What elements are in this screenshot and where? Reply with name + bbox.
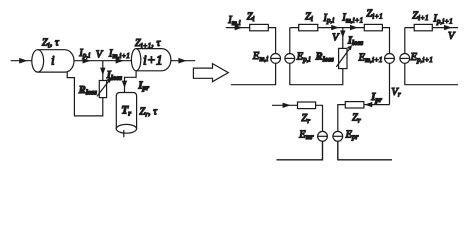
arrowhead I_loss (circuit) bbox=[340, 30, 345, 38]
variable resistor R_loss (circuit) bbox=[336, 45, 352, 68]
svg-text:Vr: Vr bbox=[391, 87, 400, 99]
svg-text:Ipr: Ipr bbox=[370, 92, 382, 104]
wire loop D bottom bbox=[405, 63, 458, 84]
source E_p,i bbox=[285, 54, 295, 64]
arrowhead I_p,i+1 bbox=[444, 25, 452, 30]
svg-text:Im,i+1: Im,i+1 bbox=[108, 48, 130, 60]
source E_pr bbox=[333, 131, 343, 141]
svg-text:Zr, τ: Zr, τ bbox=[139, 107, 158, 119]
svg-text:Iloss: Iloss bbox=[347, 35, 363, 47]
wire inlet to pipe i bbox=[11, 60, 33, 62]
svg-text:Rloss: Rloss bbox=[315, 52, 334, 64]
arrowhead I_p,i bbox=[83, 58, 91, 64]
wire loop A bottom bbox=[231, 63, 276, 84]
resonator tube T_r bbox=[116, 93, 136, 138]
svg-text:Rloss: Rloss bbox=[78, 85, 97, 97]
wire loop A top (I_m,i in) bbox=[226, 27, 250, 29]
svg-text:Emr: Emr bbox=[298, 129, 314, 141]
svg-text:Zi+1: Zi+1 bbox=[412, 10, 428, 22]
variable resistor R_loss (left) bbox=[97, 78, 111, 98]
wire loop B left vertical bbox=[289, 28, 291, 54]
arrowhead I_m,i+1 (circuit) bbox=[350, 25, 358, 30]
arrowhead I_m,i+1 bbox=[116, 58, 124, 64]
svg-text:Zi, τ: Zi, τ bbox=[42, 38, 60, 50]
svg-text:i: i bbox=[51, 52, 55, 67]
svg-text:Zr: Zr bbox=[352, 113, 361, 125]
svg-text:Ep,i: Ep,i bbox=[296, 52, 311, 64]
svg-text:i+1: i+1 bbox=[143, 52, 163, 67]
svg-text:V: V bbox=[96, 49, 104, 60]
svg-text:Zr: Zr bbox=[301, 113, 310, 125]
wire loop B bottom bbox=[290, 63, 343, 84]
resistor Z_i (loop B) bbox=[299, 24, 318, 30]
pipe segment i+1 bbox=[131, 49, 171, 71]
wire R_loss bottom loop back to pipe i bbox=[67, 72, 103, 116]
pipe segment i bbox=[32, 50, 74, 72]
wire pipe i to pipe i+1 bbox=[74, 60, 131, 62]
arrowhead I_pr (left) bbox=[122, 81, 127, 88]
resistor Z_r (loop F) bbox=[345, 102, 364, 108]
svg-text:Zi: Zi bbox=[305, 11, 313, 23]
svg-text:Ip,i+1: Ip,i+1 bbox=[432, 14, 452, 26]
resistor Z_i+1 (loop C) bbox=[364, 24, 382, 30]
wire loop E top (E_mr feed) bbox=[272, 104, 298, 106]
resistor Z_i+1 (loop D) bbox=[414, 24, 432, 30]
arrowhead outlet flow bbox=[178, 58, 186, 64]
wire loop C right + down bbox=[382, 28, 389, 54]
resistor Z_i (loop A) bbox=[250, 24, 269, 30]
svg-text:Im,i+1: Im,i+1 bbox=[341, 13, 363, 25]
wire loop E right + down bbox=[316, 105, 323, 131]
arrowhead I_m,i bbox=[235, 25, 243, 30]
wire branch junction to resonator T_r bbox=[125, 71, 137, 93]
wire node V down to R_loss bbox=[342, 28, 344, 49]
svg-text:V: V bbox=[448, 31, 456, 42]
svg-text:Zi+1: Zi+1 bbox=[366, 9, 382, 21]
source E_m,i bbox=[271, 54, 281, 64]
svg-text:Zi+1, τ: Zi+1, τ bbox=[135, 38, 162, 50]
source E_mr bbox=[318, 131, 328, 141]
svg-text:Epr: Epr bbox=[345, 129, 359, 141]
svg-text:Im,i: Im,i bbox=[227, 15, 240, 27]
wire loop F left + down bbox=[338, 105, 346, 132]
wire loop B top bbox=[290, 27, 365, 29]
svg-text:Ip,i: Ip,i bbox=[322, 13, 334, 25]
svg-text:Ip,i: Ip,i bbox=[78, 48, 90, 60]
wire loop A right + down bbox=[268, 28, 275, 54]
source E_m,i+1 bbox=[385, 54, 395, 64]
wire loop D left vertical bbox=[404, 28, 406, 54]
svg-text:Em,i: Em,i bbox=[252, 51, 268, 63]
wire outlet of pipe i+1 bbox=[171, 60, 195, 62]
svg-text:Tr: Tr bbox=[121, 105, 131, 118]
wire loop D top bbox=[405, 27, 458, 29]
resistor Z_r (loop E) bbox=[298, 102, 316, 109]
svg-text:Em,i+1: Em,i+1 bbox=[358, 52, 383, 64]
svg-text:V: V bbox=[332, 32, 340, 43]
source E_p,i+1 bbox=[400, 54, 410, 64]
svg-text:Ep,i+1: Ep,i+1 bbox=[410, 52, 433, 64]
wire loop E bottom bbox=[277, 141, 323, 160]
arrowhead inlet flow bbox=[19, 58, 27, 64]
wire V junction down to R_loss bbox=[102, 61, 104, 81]
arrowhead loop E feed bbox=[283, 103, 291, 108]
wire loop F bottom bbox=[338, 141, 392, 160]
svg-text:Ipr: Ipr bbox=[137, 80, 149, 92]
wire V_r column bbox=[389, 63, 391, 104]
wire loop F top (from V_r) bbox=[364, 104, 390, 106]
arrowhead I_pr (circuit, pointing left) bbox=[365, 102, 373, 107]
arrowhead I_loss (left) bbox=[100, 68, 105, 76]
svg-text:Zi: Zi bbox=[247, 11, 255, 23]
arrowhead I_p,i bbox=[331, 25, 339, 30]
big hollow arrow bbox=[193, 64, 228, 82]
